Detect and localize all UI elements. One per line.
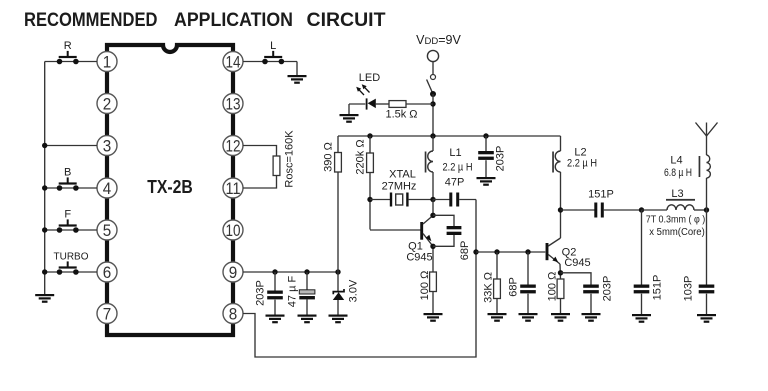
capacitor 47uF electrolytic [299,290,315,300]
svg-text:C945: C945 [406,252,432,264]
svg-text:APPLICATION: APPLICATION [174,10,293,31]
transistor Q2 C945 [547,238,561,264]
svg-text:11: 11 [226,179,241,198]
wire top rail [338,135,561,137]
svg-text:203P: 203P [495,146,507,172]
wire zener drop [337,272,339,292]
resistor 100 Q2 [557,279,564,299]
wire 1.5k to node [406,103,433,105]
node 33K [494,249,499,254]
svg-text:100 Ω: 100 Ω [419,271,431,301]
resistor 33K [494,279,501,299]
svg-text:2.2 µ H: 2.2 µ H [443,162,473,174]
node 68P2 [525,249,530,254]
ground 33K [488,313,507,322]
ground 203P osc [477,177,496,186]
wire 220k drop [369,136,371,153]
node rail-203P [483,133,488,138]
transistor Q1 C945 [370,216,433,247]
svg-text:220k Ω: 220k Ω [354,139,366,174]
wire 100 Q1 to ground [432,292,434,314]
wire 33K drop [496,252,498,279]
wire 151P shunt ground [641,294,643,314]
pushbutton B [57,177,79,190]
wire Q2 collector [560,210,562,238]
pin 5 [97,220,117,240]
pin 8 [223,304,243,324]
svg-text:Rosc=160K: Rosc=160K [283,130,295,188]
svg-text:68P: 68P [507,277,519,297]
pin 2 [97,94,117,114]
svg-text:7T 0.3mm ( φ ): 7T 0.3mm ( φ ) [646,215,706,226]
wire 103P ground [706,294,708,314]
node Q1 collector [430,213,435,218]
pushbutton F [57,219,79,232]
pin 12 [223,136,243,156]
svg-text:9: 9 [229,263,238,282]
svg-text:TURBO: TURBO [54,252,89,263]
wire 390 riser [337,171,339,272]
svg-text:8: 8 [229,305,238,324]
ground 151P [632,314,651,323]
svg-text:47P: 47P [445,177,465,189]
svg-text:14: 14 [226,53,241,72]
pin 10 [223,220,243,240]
wire LED to ground [349,104,365,114]
zener diode 3.0V [333,289,344,300]
ground 100 Q2 [551,313,570,322]
svg-text:7: 7 [103,305,112,324]
wire 203P to ground [274,300,276,315]
svg-text:5: 5 [103,221,112,240]
pin 13 [223,94,243,114]
inductor L4 6.8uH [699,136,711,210]
pin 7 [97,304,117,324]
node bus-pin3 [42,143,47,148]
svg-text:B: B [64,167,71,179]
node bus-B [42,185,47,190]
node osc [430,197,435,202]
ground LED [340,114,359,123]
svg-text:VDD=9V: VDD=9V [416,33,461,47]
capacitor 203P (osc) [478,151,494,160]
wire pin9 row [243,271,338,273]
inductor L2 2.2uH [552,136,560,210]
node rail-220k [367,133,372,138]
switch contact circle [431,75,436,80]
svg-text:XTAL: XTAL [389,169,416,181]
node feedback/base [473,249,478,254]
svg-text:6: 6 [103,263,112,282]
wire pin8 feedback [243,252,476,357]
svg-text:R: R [64,40,72,52]
capacitor 103P [699,285,715,294]
svg-text:1.5k Ω: 1.5k Ω [385,109,417,121]
pin 3 [97,136,117,156]
svg-text:2: 2 [103,95,112,114]
node 47uF [304,269,309,274]
wire 68P2 to ground [527,294,529,313]
LED diode [356,84,376,109]
node L4 [704,207,709,212]
IC TX-2B body [107,45,233,335]
node Q2 emitter [558,270,563,275]
wire pin5 row [45,229,97,231]
resistor Rosc 160K [273,156,280,176]
svg-text:2.2 µ H: 2.2 µ H [567,158,597,170]
wire Q1 collector [432,200,434,216]
svg-text:103P: 103P [682,276,694,302]
wire to 203P Q2 [561,273,592,285]
wire pin4 row [45,187,97,189]
node 151P shunt [639,207,644,212]
wire 47P right drop [475,200,477,253]
switch blade [427,80,433,95]
antenna [696,123,718,137]
wire pin3 row [45,145,97,147]
wire 390 to rail [337,136,339,153]
node bus-TURBO [42,269,47,274]
left bus wire [44,62,46,295]
node 203P [272,269,277,274]
VDD terminal [427,50,438,61]
resistor 220k [367,153,374,173]
node zener/390 [335,269,340,274]
svg-text:L1: L1 [449,147,461,159]
capacitor 68P feedback [433,215,461,246]
capacitor 68P base [520,285,536,294]
node Q2 collector / L2 [558,207,563,212]
svg-text:C945: C945 [564,257,590,269]
wire pin6 row [45,271,97,273]
wire Q2 base line [476,251,545,253]
svg-text:RECOMMENDED: RECOMMENDED [24,10,158,31]
wire switch down [432,94,434,136]
svg-text:L4: L4 [670,155,682,167]
wire 203P drop [274,272,276,291]
svg-text:1: 1 [103,53,112,72]
svg-text:203P: 203P [254,280,266,306]
wire 203P top drop [485,136,487,151]
inductor L3 [642,199,707,210]
title [24,10,386,31]
wire 47uF to ground [306,299,308,314]
svg-text:F: F [64,209,71,221]
wire 220k to xtal node [369,173,371,230]
svg-text:390 Ω: 390 Ω [322,142,334,172]
svg-text:47 µ F: 47 µ F [286,276,298,308]
pin 4 [97,178,117,198]
capacitor 203P Q2 [583,285,599,294]
svg-text:CIRCUIT: CIRCUIT [307,10,386,31]
wire Q1 emitter [432,246,434,272]
capacitor 151P shunt [634,285,650,294]
svg-text:33K Ω: 33K Ω [482,272,494,303]
wire terminal to switch [432,62,434,75]
svg-text:203P: 203P [601,276,613,302]
node 1.5k junction [430,101,435,106]
wire 100 Q2 to ground [560,299,562,314]
svg-text:TX-2B: TX-2B [147,177,193,197]
ground 47uF [298,315,317,324]
svg-text:LED: LED [359,72,380,84]
wire 203P osc to ground [485,160,487,177]
node bus-F [42,227,47,232]
svg-text:L3: L3 [671,188,683,200]
pin 14 [223,52,243,72]
svg-text:4: 4 [103,179,112,198]
wire pin1 row [45,61,97,63]
pin 6 [97,262,117,282]
wire pin14 to L [243,61,297,63]
pushbutton TURBO [57,261,79,274]
svg-text:13: 13 [226,95,241,114]
svg-text:3.0V: 3.0V [347,279,359,302]
svg-text:L: L [270,40,276,52]
wire pin12 to Rosc [243,146,277,157]
svg-text:6.8 µ H: 6.8 µ H [664,167,692,179]
wire Rosc to pin11 [243,176,277,189]
wire 33K to ground [496,299,498,314]
svg-text:3: 3 [103,137,112,156]
node rail-L1 [430,133,435,138]
wire L to ground [296,62,298,76]
svg-text:12: 12 [226,137,241,156]
pin 11 [223,178,243,198]
svg-text:151P: 151P [588,189,614,201]
ground 203P Q2 [582,313,601,322]
resistor 100 Q1 [430,272,437,292]
capacitor 203P (pin9) [267,291,283,300]
svg-text:100 Ω: 100 Ω [546,272,558,302]
inductor L1 2.2uH [425,136,433,200]
wire zener to ground [337,300,339,315]
node Q1 emitter [430,244,435,249]
ground 68P2 [519,313,538,322]
ground zener [329,315,348,324]
resistor 1.5k [389,101,406,108]
svg-text:151P: 151P [651,275,663,301]
capacitor 47P [433,193,476,207]
wire 151P shunt drop [641,210,643,285]
resistor 390 [335,153,342,173]
switch lower contact [430,91,436,97]
pin 9 [223,262,243,282]
pushbutton L [262,51,284,64]
capacitor 151P series [561,203,642,218]
pin 1 [97,52,117,72]
ground L [288,75,307,84]
crystal XTAL 27MHz [370,193,433,207]
svg-text:x 5mm(Core): x 5mm(Core) [649,227,705,238]
wire 68P2 drop [527,252,529,285]
wire LED to 1.5k [376,103,389,105]
ground 100 Q1 [424,313,443,322]
ground 203P [266,315,285,324]
svg-text:10: 10 [226,221,241,240]
node xtal left [367,197,372,202]
ground 103P [697,314,716,323]
wire 47uF drop [306,272,308,290]
ground bus [35,294,54,303]
svg-text:68P: 68P [459,241,471,261]
wire Q2 emitter [559,264,562,279]
wire 203P Q2 to ground [590,294,592,313]
svg-text:27MHz: 27MHz [382,181,417,193]
wire 103P drop [706,210,708,285]
pushbutton R [57,51,79,64]
